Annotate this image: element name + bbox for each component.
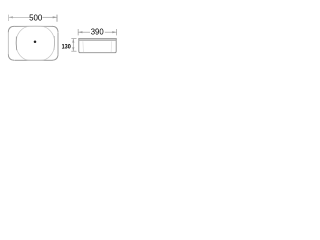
dim 500 line right segment [43,16,58,18]
dim 390 right arrow [112,31,116,33]
dim 390 right tick [116,29,118,35]
drain dot [34,41,37,44]
dim 390 line left segment [78,31,90,33]
plan view inner bowl [16,26,55,60]
svg-text:130: 130 [62,43,71,50]
plan view outer bottom edge accent [15,59,52,61]
side view rim line [79,39,116,41]
dim 130 top tick [71,38,76,40]
dim 390 left tick [77,29,79,35]
plan view outer rim [8,26,58,60]
plan view inner bowl side accents [15,37,17,51]
side view inner taper lines [82,41,85,52]
dim 500 left arrow [9,16,13,18]
dim 500 right tick [56,15,58,22]
dim 130 down arrow [72,47,74,51]
dim 130 vertical line [72,39,74,52]
dim 500 right arrow [53,16,57,18]
plan view outer corner arcs (darker) [8,26,58,60]
dim 390 line right segment [105,31,117,33]
side view rim lip top edge [78,38,116,40]
dim 130 bottom tick [71,50,76,52]
dim 500 left tick [8,15,10,21]
dim 500 line left segment [9,16,29,18]
plan view outer right edge accent [57,33,59,54]
plan view outer top edge accent [15,25,53,27]
dim 390 left arrow [78,31,82,33]
svg-text:390: 390 [91,28,104,37]
dim 130 up arrow [72,39,74,43]
svg-text:500: 500 [29,13,43,22]
side view outline [79,39,116,53]
